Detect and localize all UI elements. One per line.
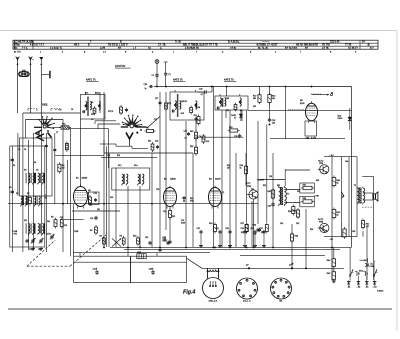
svg-text:C27: C27 [155,98,158,100]
svg-text:12BA6: 12BA6 [82,177,88,180]
svg-text:R27: R27 [241,223,244,225]
svg-text:0.1: 0.1 [185,138,187,140]
svg-text:B7 7A7 B7L: B7 7A7 B7L [285,47,298,50]
svg-text:2k2: 2k2 [97,209,100,211]
svg-text:S4: S4 [34,162,36,164]
svg-text:4 B.7B2B.7B: 4 B.7B2B.7B [185,47,199,50]
svg-text:12AV6: 12AV6 [215,178,221,181]
svg-text:R35: R35 [316,180,319,182]
svg-text:C9: C9 [91,119,93,121]
svg-text:C2: C2 [152,75,154,77]
svg-text:R11: R11 [148,141,151,143]
svg-text:C23: C23 [154,119,157,121]
svg-text:S16: S16 [110,197,113,199]
svg-text:R19: R19 [229,127,232,129]
svg-text:R38: R38 [303,198,306,200]
svg-text:- B1: - B1 [347,287,350,289]
svg-text:C4: C4 [199,136,201,138]
svg-text:C11B: C11B [93,269,98,271]
svg-text:R2: R2 [27,193,29,195]
svg-text:R31: R31 [263,185,266,187]
svg-text:R36: R36 [288,211,291,213]
svg-text:TR1: TR1 [251,189,254,191]
svg-text:C24: C24 [184,131,187,133]
svg-text:4AF1 7k: 4AF1 7k [86,78,96,82]
svg-text:8: 8 [272,287,273,289]
svg-text:R15: R15 [168,103,171,105]
svg-text:C42: C42 [296,223,299,225]
svg-text:7: 7 [196,52,197,54]
svg-text:TO-5#: TO-5# [195,107,200,109]
svg-text:- 9V: - 9V [329,239,334,241]
svg-text:A7 7B: A7 7B [322,47,329,50]
svg-text:R17: R17 [253,96,256,98]
svg-text:a 4: a 4 [103,52,106,54]
svg-text:2AST/9V: 2AST/9V [115,64,126,68]
svg-text:R37: R37 [303,185,306,187]
svg-text:S12: S12 [118,165,121,167]
svg-text:R30: R30 [268,191,271,193]
svg-text:C18: C18 [89,205,92,207]
svg-text:11°: 11° [246,265,249,267]
svg-text:C31: C31 [216,228,219,230]
svg-text:7A 7B 77: 7A 7B 77 [348,47,358,50]
svg-text:C23: C23 [155,141,158,143]
svg-text:R12: R12 [163,211,166,213]
svg-text:R10: R10 [133,236,136,238]
svg-text:C39: C39 [253,234,256,236]
svg-text:R8: R8 [120,236,122,238]
svg-text:B 9010: B 9010 [377,291,383,293]
svg-text:B. A.BI.B.L: B. A.BI.B.L [228,41,240,44]
svg-text:R32: R32 [277,185,280,187]
svg-text:C28-58: C28-58 [181,101,187,103]
svg-text:C38: C38 [269,176,272,178]
svg-text:R5: R5 [100,236,102,238]
svg-text:9: 9 [275,282,276,284]
svg-text:4 B 5 E 7 S 7: 4 B 5 E 7 S 7 [30,44,45,47]
svg-text:11°: 11° [289,265,292,267]
svg-text:1k: 1k [337,215,339,217]
svg-text:EL95: EL95 [300,103,304,105]
svg-text:C17B: C17B [46,234,51,236]
svg-text:5: 5 [283,296,284,298]
svg-text:A 7B: A 7B [100,47,105,50]
svg-text:SK2: SK2 [62,124,66,126]
svg-text:SK2: SK2 [42,102,48,106]
svg-text:R40: R40 [337,180,340,182]
svg-text:Fig.4: Fig.4 [183,289,195,295]
svg-text:S13: S13 [181,113,184,115]
svg-text:1: 1 [281,280,282,282]
svg-text:4: 4 [288,292,289,294]
svg-text:C24B: C24B [149,269,154,271]
svg-text:0.047: 0.047 [163,241,167,243]
svg-text:2 4 B.W. 7L: 2 4 B.W. 7L [50,47,63,50]
svg-text:R45: R45 [327,273,330,275]
svg-text:7A: 7A [148,47,151,50]
svg-text:C34: C34 [241,228,244,230]
svg-text:GB3: GB3 [137,252,141,254]
svg-text:R40: R40 [190,131,193,133]
svg-text:5k: 5k [240,168,242,170]
svg-text:OC72: OC72 [318,219,324,221]
svg-text:6: 6 [239,290,240,292]
svg-text:C7 Br: C7 Br [230,47,236,50]
svg-text:3: 3 [289,287,290,289]
svg-text:50k: 50k [47,221,50,223]
svg-text:R9: R9 [90,230,92,232]
svg-text:SM1-2-3.: SM1-2-3. [209,301,218,303]
svg-text:3: 3 [255,290,256,292]
svg-text:a: a [33,59,34,61]
svg-text:C1: C1 [168,74,170,76]
svg-text:OA70: OA70 [338,117,343,120]
svg-text:S9: S9 [91,102,93,104]
svg-text:BL 7TH: BL 7TH [14,52,21,54]
svg-text:R21: R21 [172,216,175,218]
svg-text:12BA6: 12BA6 [170,178,176,181]
svg-text:R10: R10 [117,155,120,157]
svg-text:50k: 50k [253,98,256,100]
svg-text:4: 4 [62,52,63,54]
svg-text:C30: C30 [197,228,200,230]
svg-text:4AF3 7k: 4AF3 7k [173,78,183,82]
svg-text:C44: C44 [345,161,348,163]
svg-text:OA70: OA70 [231,114,236,117]
svg-text:10k: 10k [272,98,275,100]
svg-text:C33: C33 [253,225,256,227]
svg-text:C43: C43 [297,191,300,193]
svg-text:C30: C30 [144,84,147,86]
svg-text:R34: R34 [310,229,313,231]
svg-text:C45: C45 [352,231,355,233]
svg-text:0.047: 0.047 [181,223,185,225]
svg-text:C41: C41 [280,223,283,225]
svg-text:R16: R16 [226,228,229,230]
svg-text:C32: C32 [199,89,202,91]
svg-text:L: L [173,52,174,54]
svg-text:C40: C40 [268,206,271,208]
svg-text:C34: C34 [226,98,229,100]
svg-text:C3: C3 [18,149,20,151]
svg-text:R7C5: R7C5 [108,111,114,113]
svg-text:4: 4 [250,296,251,298]
svg-text:C29: C29 [206,141,209,143]
svg-text:R41: R41 [366,224,369,226]
svg-text:BC: BC [14,47,18,50]
svg-text:S15: S15 [253,106,256,108]
svg-text:X7: X7 [234,118,236,120]
svg-text:R32: R32 [337,212,340,214]
svg-text:R23: R23 [190,146,193,148]
svg-text:C16: C16 [60,217,63,219]
svg-text:1k: 1k [337,183,339,185]
svg-text:1M: 1M [62,168,65,170]
svg-text:NSF: NSF [371,266,374,268]
svg-text:R28: R28 [241,232,244,234]
svg-text:7: 7 [240,283,241,285]
svg-text:R39: R39 [293,211,296,213]
svg-text:6: 6 [278,296,279,298]
svg-text:C8: C8 [71,109,73,111]
svg-text:BL 7A .BI: BL 7A .BI [258,47,268,50]
svg-text:B9b: B9b [95,92,98,94]
svg-text:C36: C36 [272,120,275,122]
svg-text:2: 2 [253,283,254,285]
svg-text:B4.: B4. [279,301,283,303]
svg-text:470k: 470k [190,201,194,203]
svg-text:OC71: OC71 [246,183,251,185]
svg-text:4,7: 4,7 [201,94,204,96]
svg-text:5: 5 [243,296,244,298]
svg-text:R1: R1 [13,165,15,167]
svg-text:R44: R44 [327,260,330,262]
svg-text:C21: C21 [107,155,110,157]
svg-text:7 7 A: 7 7 A [22,47,28,50]
svg-text:C16: C16 [64,225,67,227]
svg-text:7: 7 [273,292,274,294]
svg-text:S14: S14 [134,165,137,167]
svg-text:4AF3 7k: 4AF3 7k [224,78,234,82]
svg-text:2p: 2p [145,88,147,90]
svg-text:R18: R18 [272,96,275,98]
svg-text:7: 7 [300,52,301,54]
svg-text:133: 133 [272,123,275,125]
svg-text:4: 4 [275,52,276,54]
svg-text:+ B2: + B2 [357,287,361,289]
svg-text:OC72: OC72 [318,160,324,162]
svg-text:C20: C20 [90,218,93,220]
svg-text:C2: C2 [222,192,224,194]
svg-text:222.6.45: 222.6.45 [330,41,340,44]
svg-text:4B S: 4B S [74,44,80,47]
svg-text:C4: C4 [24,149,26,151]
svg-text:Tr. W.: Tr. W. [175,41,181,44]
svg-text:S10: S10 [91,114,94,116]
svg-text:R13: R13 [194,115,197,117]
svg-text:R43: R43 [295,236,298,238]
svg-text:R14: R14 [209,223,212,225]
svg-text:R3: R3 [51,217,53,219]
svg-text:C52: C52 [145,237,148,239]
svg-text:R29: R29 [261,232,264,234]
svg-text:C19: C19 [94,193,97,195]
svg-text:C7: C7 [56,132,58,134]
svg-text:1: 1 [247,280,248,282]
svg-text:B1-2- 3.: B1-2- 3. [243,301,251,303]
svg-text:2: 2 [286,282,287,284]
svg-text:S11: S11 [24,220,27,222]
svg-text:C25: C25 [156,189,159,191]
